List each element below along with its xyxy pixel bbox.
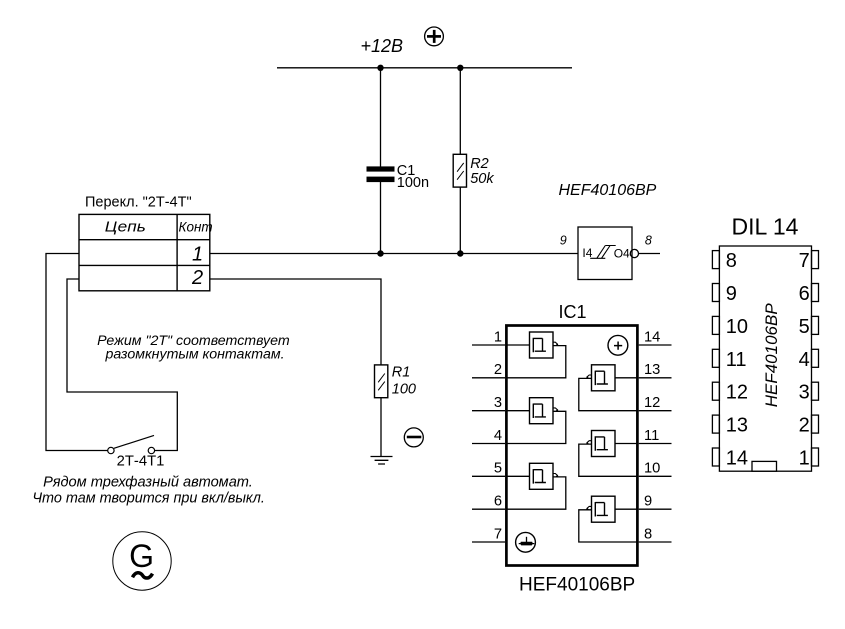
- svg-text:13: 13: [726, 415, 748, 437]
- svg-text:1: 1: [494, 329, 502, 345]
- wire row2 right to R1: [210, 279, 381, 365]
- gate E pins 11-10 input wire: [615, 443, 638, 445]
- svg-text:100: 100: [392, 382, 416, 398]
- DIL14 package body: [719, 246, 811, 471]
- DIL pin 14 stub: [712, 448, 719, 466]
- svg-text:3: 3: [494, 395, 502, 411]
- gate B output wedge: [553, 408, 558, 410]
- pin 2 stub: [472, 377, 505, 379]
- gate output inversion bubble: [630, 249, 638, 257]
- junction dot rail C1: [377, 65, 383, 71]
- gate E output wedge: [587, 441, 592, 443]
- junction dot rail R2: [457, 65, 463, 71]
- pin 12 stub: [639, 410, 672, 412]
- pin 6 stub: [472, 508, 505, 510]
- generator tilde: [133, 573, 153, 578]
- svg-text:10: 10: [644, 461, 660, 477]
- svg-text:8: 8: [726, 250, 737, 272]
- DIL pin 1 stub: [812, 448, 819, 466]
- pin 5 stub: [472, 475, 505, 477]
- svg-text:HEF40106BP: HEF40106BP: [519, 575, 635, 596]
- gate D pins 13-12 input wire: [615, 377, 638, 379]
- pin 1 stub: [472, 344, 505, 346]
- svg-text:2: 2: [494, 362, 502, 378]
- gate C hysteresis glyph: [533, 469, 546, 484]
- svg-text:9: 9: [644, 494, 652, 510]
- power symbol circled plus (+12V terminal): [425, 27, 444, 46]
- svg-text:9: 9: [726, 283, 737, 305]
- switch connector table S1: [79, 214, 210, 290]
- pin 10 stub: [639, 475, 672, 477]
- svg-text:5: 5: [494, 461, 502, 477]
- svg-text:2Т-4Т1: 2Т-4Т1: [117, 454, 165, 470]
- svg-text:11: 11: [644, 428, 659, 444]
- pin 13 stub: [639, 377, 672, 379]
- wire row1 left: [46, 254, 108, 451]
- pin 7 stub: [472, 541, 505, 543]
- svg-text:IC1: IC1: [558, 302, 586, 322]
- svg-text:2: 2: [191, 267, 203, 289]
- power symbol circled minus: [404, 428, 423, 447]
- IC power symbol circled plus at pin 14: [608, 335, 628, 355]
- svg-text:12: 12: [726, 382, 748, 404]
- wire +12V rail: [277, 67, 572, 69]
- gate A hysteresis glyph: [533, 338, 546, 353]
- gate B hysteresis glyph: [533, 404, 546, 419]
- gate B output wire to pin 4: [507, 411, 566, 443]
- svg-text:3: 3: [799, 382, 810, 404]
- pin 11 stub: [639, 443, 672, 445]
- junction dot at R2/net: [457, 250, 463, 256]
- svg-text:разомкнутым контактам.: разомкнутым контактам.: [104, 346, 284, 362]
- DIL pin 8 stub: [712, 251, 719, 269]
- svg-text:1: 1: [799, 448, 810, 470]
- svg-text:10: 10: [726, 316, 748, 338]
- pin 4 stub: [472, 443, 505, 445]
- svg-text:Цепь: Цепь: [105, 219, 146, 236]
- svg-text:1: 1: [192, 244, 203, 266]
- DIL pin 11 stub: [712, 349, 719, 367]
- svg-text:4: 4: [799, 349, 810, 371]
- gate F output wedge: [587, 506, 592, 508]
- svg-text:13: 13: [644, 362, 660, 378]
- wire R2 bottom: [459, 187, 461, 253]
- wire C1 bottom: [380, 182, 382, 254]
- generator G symbol circle: [113, 532, 171, 590]
- svg-text:12: 12: [644, 395, 660, 411]
- svg-text:5: 5: [799, 316, 810, 338]
- svg-text:O4: O4: [614, 247, 630, 261]
- gate E output wire to pin 10: [579, 444, 638, 476]
- gate C pins 5-6 input wire: [507, 475, 530, 477]
- svg-text:7: 7: [494, 526, 502, 542]
- gate D hysteresis glyph: [595, 371, 608, 386]
- svg-text:14: 14: [726, 448, 748, 470]
- DIL pin 12 stub: [712, 382, 719, 400]
- gate F output wire to pin 8: [579, 510, 638, 542]
- svg-text:HEF40106BP: HEF40106BP: [762, 303, 781, 408]
- DIL pin 13 stub: [712, 415, 719, 433]
- pin 3 stub: [472, 410, 505, 412]
- DIL pin 3 stub: [812, 382, 819, 400]
- svg-text:Перекл. "2Т-4Т": Перекл. "2Т-4Т": [85, 194, 192, 210]
- wire R1 bottom: [380, 398, 382, 457]
- resistor R2: [453, 154, 466, 187]
- gate D output wire to pin 12: [579, 378, 638, 410]
- switch 2T-4T1 contact circles: [108, 435, 155, 453]
- svg-text:2: 2: [799, 415, 810, 437]
- DIL pin 6 stub: [812, 284, 819, 302]
- junction dot at C1/net: [377, 250, 383, 256]
- gate B pins 3-4 input wire: [507, 410, 530, 412]
- svg-text:6: 6: [799, 283, 810, 305]
- svg-text:G: G: [129, 538, 154, 574]
- svg-text:R1: R1: [392, 365, 411, 381]
- pin 9 stub: [639, 508, 672, 510]
- gate C output wire to pin 6: [507, 477, 566, 509]
- svg-text:8: 8: [644, 526, 652, 542]
- svg-text:11: 11: [726, 349, 747, 371]
- svg-text:R2: R2: [470, 156, 489, 172]
- capacitor C1: [367, 166, 395, 182]
- IC ground symbol circled earth at pin 7: [516, 532, 536, 552]
- wire R2 top: [459, 68, 461, 155]
- gate hysteresis glyph: [590, 246, 616, 259]
- gate F hysteresis glyph: [595, 502, 608, 517]
- wire net row1 to gate input: [210, 253, 578, 255]
- switch lever: [114, 435, 154, 448]
- svg-text:+12В: +12В: [361, 36, 404, 56]
- ground: [371, 457, 393, 465]
- pin 8 stub: [639, 541, 672, 543]
- svg-text:100n: 100n: [397, 175, 429, 191]
- svg-text:8: 8: [645, 234, 652, 248]
- wire gate output pin 8: [639, 253, 661, 255]
- svg-text:Рядом трехфазный автомат.: Рядом трехфазный автомат.: [43, 474, 253, 490]
- gate A output wire to pin 2: [507, 346, 566, 378]
- gate F square: [592, 496, 616, 522]
- svg-text:9: 9: [560, 234, 567, 248]
- wire C1 top: [380, 68, 382, 167]
- svg-text:HEF40106BP: HEF40106BP: [559, 182, 657, 199]
- gate C square: [530, 463, 554, 489]
- gate A square: [530, 332, 554, 358]
- DIL pin 7 stub: [812, 251, 819, 269]
- DIL pin 9 stub: [712, 284, 719, 302]
- svg-text:7: 7: [799, 250, 810, 272]
- gate D output wedge: [587, 375, 592, 377]
- DIL pin 4 stub: [812, 349, 819, 367]
- resistor R1: [375, 365, 388, 398]
- gate B square: [530, 398, 554, 424]
- IC IC1 box: [506, 326, 637, 566]
- pin 14 stub: [639, 344, 672, 346]
- DIL orientation notch: [752, 461, 777, 471]
- gate E square: [592, 431, 616, 457]
- DIL pin 10 stub: [712, 316, 719, 334]
- svg-text:14: 14: [644, 329, 660, 345]
- svg-text:50k: 50k: [470, 171, 494, 187]
- svg-text:4: 4: [494, 428, 502, 444]
- svg-text:Конт: Конт: [179, 220, 213, 235]
- wire row2 left: [67, 279, 177, 451]
- DIL pin 5 stub: [812, 316, 819, 334]
- svg-text:6: 6: [494, 494, 502, 510]
- DIL pin 2 stub: [812, 415, 819, 433]
- svg-text:DIL 14: DIL 14: [732, 213, 799, 239]
- gate E hysteresis glyph: [595, 436, 608, 451]
- gate C output wedge: [553, 474, 558, 476]
- gate A output wedge: [553, 342, 558, 344]
- svg-text:Что там творится при вкл/выкл.: Что там творится при вкл/выкл.: [32, 490, 264, 506]
- gate A pins 1-2 input wire: [507, 344, 530, 346]
- op-amp gate U1 schmitt inverter body: [578, 227, 632, 280]
- gate F pins 9-8 input wire: [615, 508, 638, 510]
- gate D square: [592, 365, 616, 391]
